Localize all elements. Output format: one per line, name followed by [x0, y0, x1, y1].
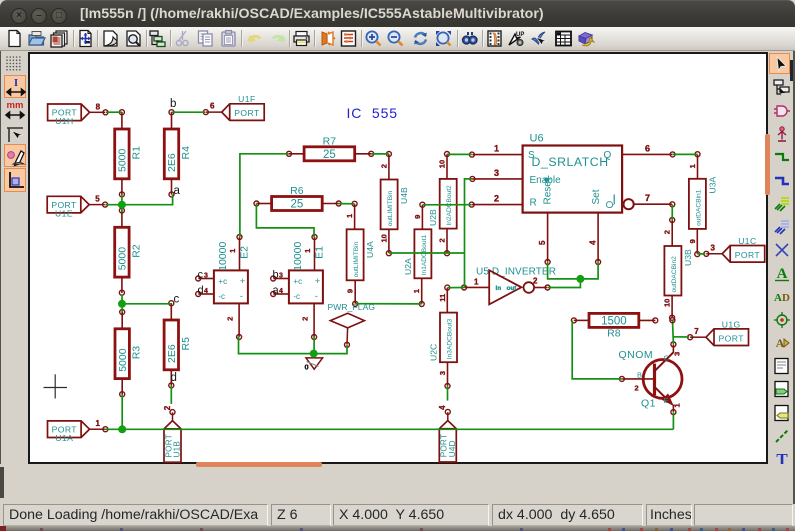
wire R6 left to E1 pin1	[256, 204, 314, 238]
block U4B	[379, 152, 409, 256]
svg-text:-c: -c	[293, 292, 300, 301]
svg-text:2: 2	[379, 164, 388, 168]
svg-text:10: 10	[438, 160, 447, 168]
svg-text:2: 2	[533, 276, 538, 285]
svg-text:E1: E1	[314, 246, 326, 259]
svg-text:2E6: 2E6	[166, 153, 178, 172]
wire U2C pin3 to U4D pin4	[447, 386, 449, 401]
svg-text:2: 2	[226, 317, 235, 321]
svg-text:In3ADCBout3: In3ADCBout3	[447, 319, 454, 360]
wire R8 left down to Q1 base	[572, 321, 622, 379]
svg-text:U1B: U1B	[173, 441, 182, 458]
svg-text:2: 2	[301, 317, 310, 321]
svg-text:8: 8	[96, 102, 101, 111]
svg-text:10: 10	[379, 234, 388, 242]
svg-text:5: 5	[538, 240, 547, 245]
inverter U5	[462, 267, 556, 305]
svg-text:10000: 10000	[217, 242, 229, 271]
controlled source E1	[271, 235, 326, 340]
svg-text:1: 1	[228, 249, 237, 253]
svg-text:U4A: U4A	[365, 241, 375, 258]
svg-text:U1G: U1G	[722, 319, 741, 329]
svg-text:3: 3	[279, 272, 283, 279]
svg-text:10: 10	[663, 299, 672, 307]
resistor R1	[115, 110, 143, 197]
resistor R5	[164, 301, 192, 388]
svg-text:+: +	[315, 276, 320, 286]
svg-text:R8: R8	[607, 328, 621, 340]
svg-text:R4: R4	[180, 146, 192, 160]
svg-text:c: c	[174, 294, 180, 306]
svg-text:R: R	[530, 198, 537, 209]
svg-text:5000: 5000	[117, 247, 129, 271]
wire U6 pin6 to U3A pin1	[673, 153, 698, 155]
svg-text:E: E	[664, 396, 669, 405]
wire U1E pin5 to node	[105, 204, 122, 206]
svg-text:6: 6	[210, 102, 215, 111]
svg-text:5000: 5000	[117, 148, 129, 172]
wire R2 bottom to R3 top	[121, 294, 123, 312]
latch U6	[469, 133, 675, 265]
svg-text:U6: U6	[530, 133, 544, 145]
svg-text:4: 4	[438, 405, 447, 410]
wire U4B pin10 to U2B pin2	[389, 252, 465, 254]
svg-text:4: 4	[204, 288, 208, 295]
wire U2A pin9 to U6 pin2	[422, 204, 471, 206]
svg-text:+: +	[240, 276, 245, 286]
wire U2C pin11 to inverter input	[447, 287, 464, 289]
svg-text:-: -	[240, 291, 243, 301]
svg-text:U5 D_INVERTER: U5 D_INVERTER	[476, 267, 556, 278]
svg-text:outLIMITBin: outLIMITBin	[353, 241, 360, 277]
wire R4 top to U1F pin6 (node b)	[172, 111, 206, 113]
svg-text:In1ADCBout1: In1ADCBout1	[421, 235, 428, 276]
svg-text:outLIMITBin: outLIMITBin	[387, 190, 394, 226]
svg-text:9: 9	[688, 239, 697, 243]
junction node D	[576, 275, 584, 283]
wire U1H pin8 to R1 top	[106, 111, 122, 113]
hierarchical port U4D pin 4	[438, 405, 457, 462]
svg-text:-c: -c	[218, 292, 225, 301]
left toolbar	[0, 51, 28, 464]
svg-text:c: c	[198, 269, 204, 281]
wire bottom ground rail	[122, 428, 673, 430]
svg-text:7: 7	[645, 193, 650, 203]
block U3B	[663, 218, 693, 321]
svg-text:U1H: U1H	[55, 116, 73, 126]
svg-text:3: 3	[494, 168, 499, 178]
node junction circle R8-U3B	[670, 318, 675, 323]
wire U2B pin10 to U6 pin1	[447, 153, 472, 155]
svg-text:b: b	[273, 269, 279, 281]
svg-text:R1: R1	[130, 146, 142, 160]
svg-text:PORT: PORT	[735, 250, 761, 260]
svg-text:a: a	[174, 185, 181, 197]
resistor R2	[115, 208, 143, 295]
right toolbar	[768, 51, 795, 464]
wire R5 bottom to U1B pin2 (node d)	[170, 386, 172, 404]
hierarchical port U1G pin 7	[688, 319, 749, 345]
dark scrollbar piece top-right	[790, 60, 795, 81]
top toolbar	[0, 27, 795, 51]
svg-text:2: 2	[635, 384, 639, 393]
svg-text:in: in	[496, 285, 502, 292]
svg-text:+c: +c	[293, 277, 302, 286]
svg-text:2: 2	[494, 194, 499, 204]
wire R1 bottom to R2 top	[121, 195, 123, 213]
svg-text:d: d	[171, 372, 177, 384]
svg-text:1: 1	[345, 214, 354, 218]
svg-text:9: 9	[346, 289, 355, 293]
vertical overlay scrollbar thumb	[765, 134, 770, 195]
wire R6 right to U4A pin1	[339, 203, 355, 205]
svg-text:R5: R5	[180, 337, 192, 351]
svg-text:3: 3	[204, 272, 208, 279]
svg-text:U1A: U1A	[55, 433, 73, 443]
svg-text:4: 4	[279, 288, 283, 295]
svg-text:U3B: U3B	[683, 249, 693, 266]
hierarchical port U1H pin 8	[48, 102, 108, 126]
svg-text:Reset: Reset	[543, 178, 554, 204]
svg-text:11: 11	[438, 294, 447, 302]
hierarchical port U1A pin 1	[48, 419, 108, 443]
svg-text:outDACBin1: outDACBin1	[695, 189, 702, 226]
svg-text:2: 2	[163, 405, 172, 410]
resistor R7	[287, 135, 374, 161]
svg-text:Q1: Q1	[641, 397, 656, 409]
svg-text:1: 1	[494, 144, 499, 154]
wire U4A pin9 to U2A pin1	[355, 303, 422, 305]
svg-text:1: 1	[96, 419, 101, 428]
wire ground node to PWR_FLAG	[314, 345, 347, 354]
svg-text:U3A: U3A	[707, 177, 717, 194]
svg-text:25: 25	[323, 149, 336, 161]
wire node to R5 top (node c)	[122, 303, 172, 305]
svg-text:R6: R6	[290, 185, 304, 197]
svg-text:2: 2	[438, 238, 447, 242]
gray band below canvas	[0, 464, 795, 504]
svg-text:0: 0	[305, 363, 309, 372]
wire E2 pin2 to ground node	[239, 337, 314, 354]
svg-text:1: 1	[673, 403, 682, 407]
svg-text:R2: R2	[130, 244, 142, 258]
svg-text:3: 3	[438, 371, 447, 375]
wire R3 bottom to ground rail	[121, 394, 123, 429]
horizontal overlay scrollbar thumb	[196, 462, 322, 467]
svg-text:-: -	[315, 291, 318, 301]
junction node C	[118, 425, 126, 433]
junction node A	[118, 201, 126, 209]
hierarchical port U1C pin 3	[704, 236, 765, 262]
hierarchical port U1B pin 2	[163, 405, 182, 462]
hierarchical port U1F pin 6	[203, 94, 264, 120]
wire Q1 emitter to rail	[672, 412, 674, 429]
window title bar	[0, 0, 795, 27]
wire U6 pin5 to node	[548, 262, 581, 279]
svg-text:U4B: U4B	[399, 187, 409, 204]
svg-text:E2: E2	[239, 246, 251, 259]
svg-text:Set: Set	[591, 189, 602, 204]
status bar	[0, 504, 795, 526]
resistor R6	[254, 185, 341, 211]
svg-text:U2A: U2A	[403, 258, 413, 275]
svg-text:R3: R3	[131, 346, 143, 360]
transistor Q1	[619, 342, 682, 415]
svg-text:2: 2	[663, 230, 672, 234]
svg-text:QNOM: QNOM	[619, 349, 654, 361]
crosshair cursor	[44, 387, 68, 389]
wire U1A pin1 to rail	[105, 428, 123, 430]
svg-text:PORT: PORT	[234, 108, 260, 118]
svg-text:3: 3	[710, 243, 715, 252]
svg-text:outDACBin2: outDACBin2	[671, 256, 678, 293]
wire R8 right junction to Q1 collector	[672, 320, 675, 344]
wire R7 right to U4B pin2	[371, 153, 389, 155]
svg-text:B: B	[637, 370, 642, 379]
ground	[305, 354, 323, 372]
svg-text:out: out	[507, 285, 518, 292]
svg-text:U1E: U1E	[55, 208, 73, 218]
resistor R3	[115, 310, 143, 397]
drawing canvas	[28, 52, 768, 464]
svg-text:6: 6	[645, 144, 650, 154]
wire E1 pin2 to ground node	[313, 337, 315, 354]
wire U6 pin7 to U3B pin2	[671, 204, 673, 220]
svg-text:9: 9	[413, 215, 422, 219]
wire inverter output to node	[548, 279, 581, 288]
block U2C	[429, 285, 458, 388]
svg-text:3: 3	[673, 352, 682, 356]
wire U6 pin3 down to inverter input	[465, 179, 473, 288]
svg-text:PORT: PORT	[719, 333, 745, 343]
svg-text:U1F: U1F	[238, 94, 255, 104]
svg-text:1500: 1500	[601, 315, 627, 327]
svg-text:7: 7	[694, 327, 699, 336]
svg-text:b: b	[170, 98, 176, 110]
svg-text:1: 1	[474, 277, 479, 286]
svg-text:+c: +c	[218, 277, 227, 286]
svg-text:IC 555: IC 555	[347, 105, 398, 121]
svg-text:U1C: U1C	[738, 236, 756, 246]
wire U3A pin9 to U1C pin3	[697, 253, 705, 255]
wire collector branch to U1G pin7	[673, 336, 689, 338]
svg-text:4: 4	[588, 240, 597, 245]
power flag	[328, 302, 376, 347]
svg-text:10000: 10000	[292, 242, 304, 271]
svg-text:R7: R7	[323, 135, 337, 147]
block U4A	[345, 201, 375, 306]
svg-text:1: 1	[303, 249, 312, 253]
wire R7 left to E2 pin1	[240, 154, 289, 237]
svg-text:C: C	[664, 354, 670, 363]
wire node to U6 pin4	[580, 262, 598, 279]
svg-text:5000: 5000	[117, 348, 129, 372]
svg-text:U4D: U4D	[448, 440, 457, 457]
svg-text:U2C: U2C	[429, 344, 439, 361]
block U2A	[403, 202, 432, 306]
svg-text:2E6: 2E6	[166, 344, 178, 363]
svg-text:25: 25	[291, 199, 304, 211]
block U3A	[688, 152, 718, 257]
svg-text:1: 1	[688, 164, 697, 168]
wire node to R4 bottom (node a)	[122, 195, 173, 205]
junction node GND	[310, 350, 318, 358]
svg-text:D_SRLATCH: D_SRLATCH	[532, 155, 609, 169]
junction node B	[118, 300, 126, 308]
hierarchical port U1E pin 5	[47, 195, 107, 219]
controlled source E2	[196, 235, 251, 340]
svg-text:1: 1	[412, 289, 421, 293]
block U2B	[428, 152, 457, 256]
resistor R4	[164, 110, 192, 197]
resistor R8	[571, 313, 657, 339]
svg-text:5: 5	[95, 195, 100, 204]
svg-text:d: d	[198, 285, 204, 297]
svg-text:U2B: U2B	[428, 209, 438, 226]
